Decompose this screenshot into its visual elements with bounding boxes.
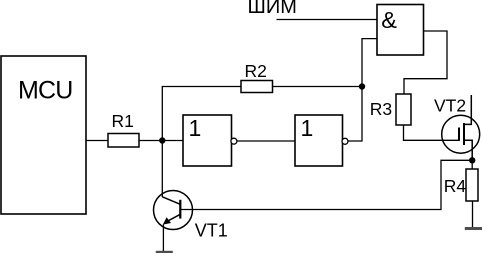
node A junction dot bbox=[159, 137, 165, 143]
svg-text:1: 1 bbox=[301, 115, 314, 141]
wire node C to R4 bbox=[471, 160, 473, 169]
svg-text:VT1: VT1 bbox=[195, 221, 228, 241]
MCU block U1 bbox=[1, 56, 86, 214]
wire node A up to R2 bbox=[162, 87, 241, 141]
svg-text:R2: R2 bbox=[245, 61, 267, 81]
wire R3 to VT2 gate bbox=[404, 125, 460, 140]
ground under R4 bbox=[465, 227, 482, 230]
resistor R1 bbox=[108, 111, 139, 147]
svg-text:R1: R1 bbox=[112, 111, 134, 131]
wire inverter DD1.1 out to DD1.2 in bbox=[237, 140, 295, 142]
resistor R3 bbox=[370, 94, 411, 125]
svg-text:VT2: VT2 bbox=[434, 96, 466, 116]
svg-text:R4: R4 bbox=[444, 176, 467, 196]
ground under VT1 bbox=[156, 251, 173, 253]
transistor VT2 (MOSFET) bbox=[434, 95, 480, 160]
svg-text:MCU: MCU bbox=[18, 77, 73, 105]
wire MCU to R1 bbox=[86, 140, 108, 142]
transistor VT1 (NPN) bbox=[154, 191, 228, 252]
resistor R2 bbox=[241, 61, 273, 93]
wire R2 to node B bbox=[273, 86, 363, 88]
AND gate DD2 bbox=[377, 5, 424, 56]
wire PWM input to AND gate bbox=[277, 19, 378, 21]
wire AND gate output to R3 bbox=[404, 31, 447, 94]
wire node A down to VT1 collector bbox=[161, 141, 163, 198]
svg-text:&: & bbox=[381, 7, 397, 33]
inverter DD1.2 bbox=[295, 115, 348, 166]
inverter DD1.1 bbox=[183, 115, 237, 166]
wire R1 to node A bbox=[139, 140, 183, 142]
resistor R4 bbox=[444, 169, 478, 201]
wire node C to VT1 base bbox=[180, 160, 472, 209]
svg-text:ШИМ: ШИМ bbox=[248, 0, 297, 18]
svg-text:R3: R3 bbox=[370, 99, 392, 119]
node C junction dot bbox=[469, 157, 475, 163]
svg-text:1: 1 bbox=[189, 115, 202, 141]
wire R4 to ground bbox=[472, 201, 474, 228]
node B junction dot bbox=[359, 83, 365, 89]
wire DD1.2 out up through node B to AND gate input bbox=[348, 39, 377, 141]
